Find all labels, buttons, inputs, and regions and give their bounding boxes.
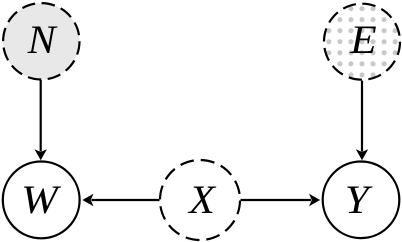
node X (dashed circle) [160,160,240,240]
arrow X to W [82,194,159,206]
svg-text:N: N [27,17,59,62]
svg-text:E: E [349,18,376,62]
arrow E to Y [356,81,368,161]
svg-text:X: X [187,177,217,222]
arrow X to Y [241,194,321,206]
node E (dashed circle, dotted fill) [324,4,400,80]
node N (dashed circle, gray fill) [3,3,79,79]
node W (solid circle) [3,162,80,239]
arrow N to W [35,80,47,160]
svg-text:Y: Y [345,178,373,222]
node Y (solid circle) [323,162,400,239]
svg-text:W: W [21,179,62,223]
